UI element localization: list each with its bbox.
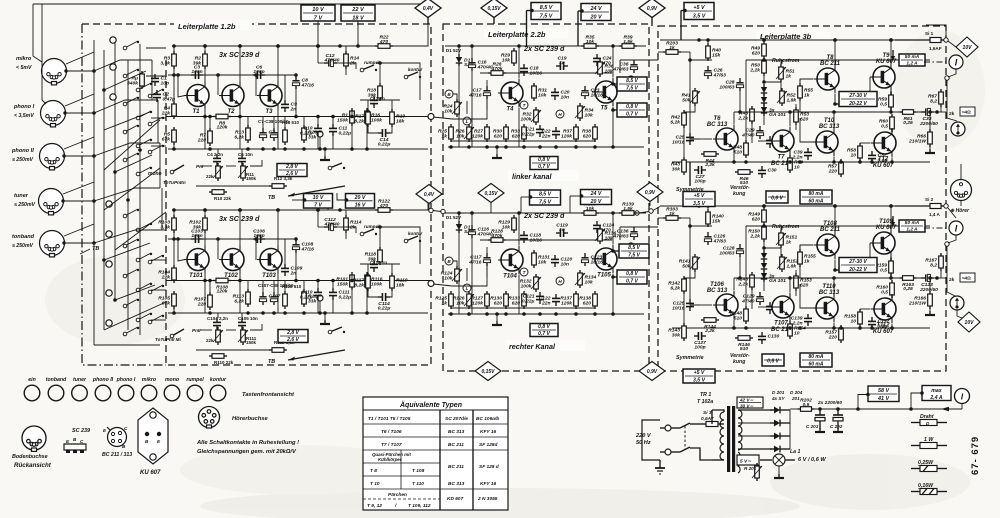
wire R1 top [351,111,353,117]
wire block1 long bus [166,280,430,282]
test point 0,9V mid [637,183,663,202]
switch contact l2 [136,223,152,232]
DIN socket phono I [41,101,66,127]
svg-text:0,22μ: 0,22μ [522,131,535,137]
junction bus116 dot b [238,115,242,119]
svg-text:10k: 10k [586,39,594,45]
wire R149 top [763,206,765,210]
junction bus j4 [365,115,369,119]
junction bias j [762,80,766,84]
junction b2 rail147 dot 506 [504,312,508,316]
capacitor C128 [719,244,743,257]
svg-text:120k: 120k [217,125,228,131]
svg-text:20 V: 20 V [590,199,602,205]
junction b3 gnd rail dot 892 [890,326,894,330]
capacitor C30 [758,166,777,178]
svg-text:BC 313: BC 313 [448,429,465,435]
label button mono [165,377,179,383]
junction b3 j60 [762,58,766,62]
svg-text:0,5: 0,5 [803,402,810,408]
svg-text:100p: 100p [694,179,705,185]
svg-text:4x SY: 4x SY [771,396,785,401]
svg-text:22 V: 22 V [351,7,365,13]
switch contact u6 [123,125,139,134]
wire 24V mid left [570,195,581,197]
test point 0,4V mid [416,185,442,204]
meter I upper [949,55,963,69]
resistor R33 [511,124,526,142]
wire switch out low1 [151,229,166,231]
junction bus116 dot a [203,115,207,119]
junction T108 e j [833,268,837,272]
wire block1 collector rail [172,209,428,211]
junction b3 top rail dot 764 [762,204,766,208]
wire mikro signal [66,70,94,72]
label C4 value [207,152,223,157]
svg-text:2k: 2k [949,277,955,283]
resistor R40 [706,43,722,61]
label C5 value [238,152,253,157]
wire b2 out v [619,227,621,240]
wire T2 base wire [217,75,219,95]
wire lamp gnd [778,466,780,475]
wire T2 collector [239,46,241,82]
bus dot 128-200 [126,198,130,202]
svg-text:8,2: 8,2 [930,98,937,104]
junction b3 gnd rail dot 734 [732,326,736,330]
label button ein [28,377,36,383]
svg-text:3x SC 239 d: 3x SC 239 d [219,50,260,59]
capacitor C132 [868,317,890,329]
wire tone net out [250,324,262,330]
wire T108 collector [834,206,836,231]
wire diode col bot [763,282,765,291]
junction b2 rail147 dot 487 [485,312,489,316]
transistor T109 [870,219,897,257]
svg-text:67k: 67k [162,136,170,142]
junction C112 j [316,208,320,212]
svg-text:620: 620 [800,116,808,122]
junction 58V [866,393,870,397]
svg-text:24 V: 24 V [589,6,601,12]
svg-text:Hörerbuchse: Hörerbuchse [232,416,269,422]
wire T12 collector [891,128,893,132]
svg-text:0,6 V: 0,6 V [767,359,779,365]
voltage box 8,5V/7,5V right upper [617,77,647,91]
svg-text:10p: 10p [161,80,170,86]
voltage box 20V/16V mid [346,194,375,209]
resistor R42 [670,110,686,128]
svg-text:10k: 10k [502,224,510,230]
ground gnd block2 [492,154,502,158]
junction R166 [928,276,932,280]
svg-text:TB: TB [268,359,275,365]
label R111 value2 [246,340,257,345]
ground gnd block1 [320,320,330,324]
svg-text:16 V: 16 V [355,202,366,208]
wire box3 top right corner [926,25,946,37]
label 2x SC 239 d [523,44,565,53]
DIN socket Hoerer [951,180,972,201]
label Ruhestrom [772,224,800,230]
svg-text:KFY 16: KFY 16 [480,429,497,435]
svg-text:10/16: 10/16 [591,259,604,265]
svg-text:120k: 120k [217,289,228,295]
junction rail j2 [238,44,242,48]
wire R66 top [929,112,931,132]
svg-text:BC 109a/b: BC 109a/b [476,416,499,422]
svg-text:60 mA: 60 mA [808,361,823,367]
svg-text:220 V: 220 V [635,433,652,439]
svg-text:2,2n: 2,2n [792,320,803,326]
svg-text:47/63: 47/63 [713,238,727,244]
resistor R107 [194,292,212,310]
svg-text:C105 10n: C105 10n [238,316,258,321]
resistor R39 [619,35,637,49]
label Symmetrie upper [676,187,704,193]
arrow current upper [891,50,895,60]
wire R167 link [940,268,942,278]
wire T112 base wire [860,308,871,310]
junction bus116 dot a [203,279,207,283]
capacitor C109 [281,264,303,276]
svg-text:ein: ein [28,377,36,383]
resistor R159 [875,258,893,276]
wire kontur net bot2 [390,288,392,297]
wire T106 emitter [733,320,735,329]
junction phono I [63,111,66,114]
label mikro input [16,56,32,71]
resistor R112 [269,348,287,353]
wire R4R5 link [173,75,175,104]
wire node L wire [466,101,468,114]
wire meter psu link [961,404,963,410]
capacitor C111 [329,288,351,300]
svg-text:80 mA: 80 mA [808,354,823,360]
capacitor C136 [612,227,637,240]
junction drive j C28 [738,276,742,280]
svg-text:≈4Ω: ≈4Ω [962,276,971,281]
switch contact mono contact mid [328,327,345,334]
wire 24V mid drop [569,196,571,213]
wire tone feed v2 [241,149,243,154]
junction rail149 dot 320 [318,311,322,315]
transistor T106 [707,282,738,319]
resistor R55 [798,83,814,101]
svg-text:27-30 V: 27-30 V [848,259,867,265]
wire bias v [781,226,783,230]
transistor T108 [814,221,841,259]
junction b3 gnd rail dot 734 [732,160,736,164]
test point 10V top right [956,37,978,57]
wire T110 emitter [833,323,835,329]
svg-text:BC 211: BC 211 [820,61,841,67]
svg-text:T5: T5 [600,106,608,112]
capacitor C122 [539,294,560,306]
wire C28 chain [739,90,741,112]
wire T105 emitter [612,274,614,315]
wire T104 base wire [486,265,488,277]
wire top shield bus [33,3,428,5]
svg-text:47/16: 47/16 [468,92,482,98]
svg-text:6 V / 0,6 W: 6 V / 0,6 W [798,457,826,463]
svg-text:10n: 10n [561,261,570,267]
svg-text:T3: T3 [265,109,273,115]
svg-text:100/63: 100/63 [719,84,734,90]
wire T8 base wire [800,79,814,86]
svg-text:0,22μ: 0,22μ [339,130,352,136]
svg-text:T 9, 12: T 9, 12 [367,503,382,509]
svg-text:510: 510 [734,315,742,321]
switch contact u3 [136,83,152,92]
resistor R131 [532,250,550,268]
svg-text:620: 620 [512,300,520,306]
resistor R129 [498,215,516,233]
wire T105 collector [612,213,614,245]
junction kontur j [378,61,382,65]
wire R107 top [209,281,211,296]
wire diode col bot [763,116,765,125]
capacitor C20 [551,88,570,100]
svg-text:50k: 50k [682,97,690,103]
wire R51 bot [780,79,782,91]
svg-text:SC 239: SC 239 [72,428,90,434]
label tuner input [14,193,36,208]
wire C116 gnd [471,238,473,314]
svg-text:1k: 1k [669,45,675,51]
junction b2 rail147 dot 595 [593,145,597,149]
resistor R167 8,2 [925,253,943,271]
trimmer R36 [595,59,614,77]
selector contact circle 3 [110,94,116,100]
capacitor C13 [370,96,378,108]
svg-text:R10 22k: R10 22k [214,196,232,201]
wire tone low h [196,185,270,187]
wire R55 drop [799,98,801,112]
junction bus j4 [365,279,369,283]
wire to 10V diamond [948,41,956,47]
junction b3 top rail dot 835 [833,38,837,42]
capacitor C112 [323,217,339,231]
voltage box +5V/3,5V top [684,3,714,20]
wire mid gap 1 [433,211,441,212]
wire D1 chain [458,213,460,221]
wire T109 collector [890,206,892,229]
svg-text:mikro: mikro [142,377,156,383]
switch contact l1 [123,209,139,218]
svg-text:620: 620 [752,50,760,56]
wire block3 supply rail [660,205,930,207]
svg-text:120k: 120k [472,133,483,139]
capacitor C110 [300,288,322,300]
trimmer R126 [453,291,474,309]
svg-text:0,7 V: 0,7 V [538,164,550,170]
svg-text:620: 620 [512,133,520,139]
svg-text:220: 220 [828,334,837,340]
junction T8 e j [833,102,837,106]
trimmer R201 [752,463,762,481]
wire R7 top [209,117,211,132]
svg-text:rumpel: rumpel [186,377,204,383]
measuring point trim point [628,76,634,82]
svg-text:Äquivalente Typen: Äquivalente Typen [399,401,462,409]
switch contact rumpel switch [360,60,380,72]
bus dot 104-260 [102,258,106,262]
document number 67-679 [970,436,981,475]
wire R14 bot [345,66,347,75]
wire R5 gnd [173,142,175,149]
svg-text:60 mA: 60 mA [808,198,823,204]
svg-text:phono I: phono I [116,377,136,383]
svg-text:≤ 250mV: ≤ 250mV [12,157,34,163]
resistor legend Draht [911,414,947,426]
resistor R130 [490,291,508,309]
svg-text:18 V: 18 V [352,15,365,21]
svg-text:0,8 V: 0,8 V [626,271,638,277]
switch contact u7 [136,139,152,148]
wire rect mid taps2 [738,435,770,437]
wire R18b top [284,117,286,131]
wire C12 left [317,46,319,63]
wire T110 base wire [800,284,813,308]
diode D4 [761,94,767,106]
resistor R20 [302,125,318,143]
wire meter lower down [948,235,956,243]
resistor R166 210/1W [908,291,932,309]
wire T3 base wire [255,75,257,96]
junction b2 rail147 dot 576 [574,145,578,149]
selector contact circle 1 [110,37,116,43]
capacitor C4 [213,154,221,166]
junction rail149 dot 248 [246,147,250,151]
svg-text:10/16: 10/16 [672,139,685,145]
wire block3 supply rail [660,39,930,41]
svg-text:27-30 V: 27-30 V [848,93,867,99]
svg-text:2,2n: 2,2n [792,154,803,160]
wire T1 collector [204,46,206,82]
wire block3 gnd rail [672,327,930,329]
wire T8 collector [834,40,836,65]
svg-text:41 V: 41 V [877,396,889,402]
junction drive j1 [788,110,792,114]
wire R13 top [247,117,249,129]
svg-text:10k: 10k [586,206,594,212]
wire terminal lower down [946,246,948,278]
wire C128 chain [739,256,741,278]
wire C10 gnd [317,136,319,149]
svg-text:0,25: 0,25 [903,120,913,126]
junction rail149 dot 304 [302,311,306,315]
svg-text:2,2k: 2,2k [704,162,715,168]
wire T3 emitter [277,110,279,150]
resistor R7 [197,128,213,146]
wire R114 bot [345,230,347,239]
svg-text:0,5: 0,5 [880,267,887,273]
capacitor C107 [259,292,280,305]
resistor R104 [158,265,176,283]
wire T9 emitter [890,91,892,95]
resistor R49 [751,41,766,59]
wire tone net h [200,329,212,331]
trimmer R141 [679,254,700,272]
svg-text:1k: 1k [804,258,810,264]
voltage box 8,5V/7,5V right lower [619,244,649,258]
svg-text:10/16: 10/16 [672,305,685,311]
wire T2 emitter [239,110,241,150]
capacitor C2 0,47u [153,90,175,102]
wire C111 gnd [332,300,334,313]
wire T4 emitter [518,108,520,148]
wire tone low h [196,349,270,351]
trimmer R11 [238,163,248,181]
svg-text:C30: C30 [768,168,777,174]
junction input j [688,224,692,228]
resistor R28 [488,62,506,76]
label TB arrow at tonband [80,246,99,254]
capacitor C21 [522,125,544,137]
board outline Leiterplatte 2.2b (dashed) [443,24,649,371]
svg-text:tonband: tonband [12,234,35,240]
svg-text:1,8k: 1,8k [787,97,797,103]
svg-text:50k: 50k [682,263,690,269]
label button kontur [210,377,227,383]
svg-text:C5 10n: C5 10n [238,152,253,157]
resistor R59 [878,92,893,110]
wire kontur net v2 [391,100,393,112]
resistor R120 [302,289,320,307]
measuring point mp1 [317,295,323,301]
wire T3 collector [277,46,279,82]
capacitor C119 [556,223,568,237]
svg-text:24 V: 24 V [590,191,602,197]
capacitor C38 [270,128,277,141]
wire route diag 1 [104,71,146,90]
wire T107 collector [789,278,791,293]
wire R59 out [890,107,892,112]
svg-text:0,5: 0,5 [880,101,887,107]
mains switch [671,423,712,460]
resistor R103 [158,215,176,233]
wire T5 collector [612,46,614,78]
wire mp1 stub [319,301,321,313]
wire R120 top [303,281,305,293]
note Alle Schaltkontakte [196,440,299,455]
capacitor C114 [378,293,391,312]
wire R14 top [345,46,347,54]
wire R67 link [940,104,942,112]
wire 24V drop [578,11,581,46]
svg-text:0,22μ: 0,22μ [300,294,313,300]
label 42V winding [737,397,763,409]
node node H [556,277,564,285]
resistor R101 [336,272,354,290]
svg-text:Symmetrie: Symmetrie [676,355,704,361]
junction rail149 dot 367 [365,311,369,315]
junction input j [688,58,692,62]
capacitor C131 [766,302,788,314]
svg-text:T1: T1 [192,109,200,115]
transistor T103 [257,246,282,280]
DIN socket phono II [40,144,65,170]
svg-text:Kühlkörper: Kühlkörper [378,457,402,462]
svg-text:Alle Schaltkontakte in Ruheste: Alle Schaltkontakte in Ruhestellung ! [196,440,299,446]
svg-text:PnII: PnII [192,328,201,333]
svg-text:2,2k: 2,2k [749,67,760,73]
junction phono II [62,154,65,157]
terminal circle box2 left mid [441,209,445,213]
junction out upper [935,110,939,114]
wire C110 gnd [317,300,319,313]
